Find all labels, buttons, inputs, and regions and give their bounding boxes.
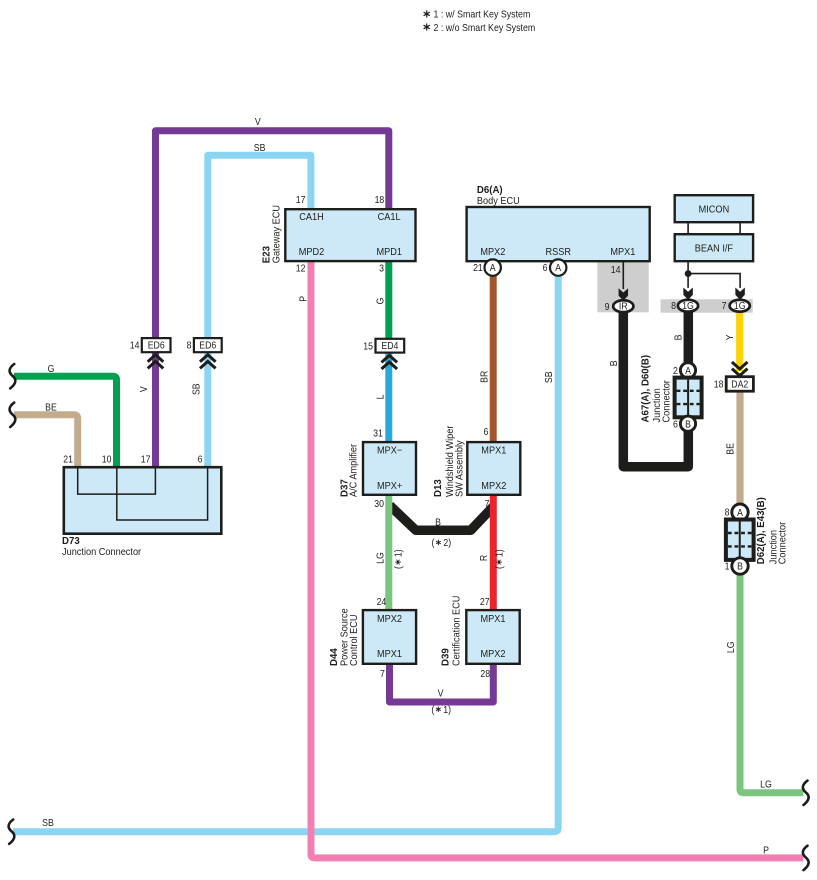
svg-text:24: 24: [377, 596, 387, 608]
svg-text:MPX1: MPX1: [481, 445, 506, 457]
svg-text:V: V: [137, 386, 149, 393]
connector 15 ED4 (G/L wire): [363, 339, 404, 369]
wire B (D37 MPX+ to D13 MPX2 bridge): [390, 506, 494, 531]
svg-text:B: B: [607, 360, 619, 366]
wire LG (D37 MPX+ down to D44 MPX2): [385, 495, 392, 610]
legend note *2: [424, 22, 536, 34]
gray shade behind 1G ovals: [661, 299, 753, 312]
svg-text:2: 2: [673, 364, 678, 376]
wire V (D44 MPX1 to D39 MPX2 bottom loop): [390, 664, 494, 702]
svg-text:MPX2: MPX2: [377, 613, 402, 625]
svg-text:MICON: MICON: [699, 204, 730, 216]
svg-text:A: A: [555, 262, 562, 274]
ECU D44 Power Source Control ECU: [363, 610, 416, 664]
svg-text:8: 8: [725, 506, 730, 518]
wire P (E23 MPD2 down, across bottom to right edge): [311, 261, 803, 858]
svg-text:7: 7: [380, 668, 385, 680]
break symbol SB (bottom left): [9, 820, 15, 844]
wire V (D73 pin17 up through ED6, over top, down to E23 CA1L): [156, 131, 389, 468]
svg-text:1: 1: [725, 560, 730, 572]
svg-text:A67(A), D60(B): A67(A), D60(B): [640, 355, 651, 423]
connector ring A (A67): [680, 363, 695, 378]
connector ring A (D62): [732, 504, 748, 520]
wire G (E23 MPD1 down to ED4): [385, 261, 392, 338]
wire B (IR oval down, right, up to A67 connector B): [623, 306, 688, 467]
svg-text:6: 6: [673, 418, 678, 430]
svg-text:B: B: [435, 516, 441, 528]
break symbol BE (left): [10, 403, 16, 427]
wire BE (DA2 down to D62 connector A): [736, 391, 743, 512]
svg-text:MPX1: MPX1: [610, 246, 635, 258]
svg-text:MPX+: MPX+: [377, 480, 402, 492]
svg-text:ED6: ED6: [148, 339, 165, 351]
svg-text:3: 3: [379, 262, 384, 274]
connector 14 ED6 (V wire): [130, 338, 171, 368]
label (*1) (LG wire): [392, 549, 404, 569]
svg-text:MPX2: MPX2: [480, 246, 505, 258]
svg-text:28: 28: [480, 668, 490, 680]
svg-text:G: G: [374, 298, 386, 305]
svg-text:31: 31: [373, 427, 383, 439]
connector 18 DA2 (Y/BE wire): [714, 377, 754, 392]
ECU D6(A) Body ECU: [467, 207, 650, 261]
block BEAN I/F: [675, 234, 753, 261]
svg-text:Gateway ECU: Gateway ECU: [271, 205, 283, 263]
svg-text:B: B: [737, 560, 743, 572]
svg-text:D13: D13: [433, 479, 444, 497]
svg-text:V: V: [255, 115, 262, 127]
wire B (1G pin8 down to A67 connector A): [684, 306, 694, 371]
svg-text:BE: BE: [45, 401, 57, 413]
label (*1) (bottom loop): [431, 703, 451, 715]
arrow into IR: [619, 288, 629, 300]
svg-text:7: 7: [485, 497, 490, 509]
svg-text:6: 6: [543, 262, 548, 274]
legend note *1: [424, 9, 531, 21]
connector ring A (Body ECU RSSR): [550, 259, 566, 275]
arrow into 1G pin7: [735, 288, 745, 300]
wire BR (Body ECU MPX2 down to D13 MPX1): [490, 268, 497, 443]
wire SB (Body ECU RSSR down, across bottom to left edge): [13, 268, 558, 832]
svg-text:21: 21: [473, 262, 483, 274]
svg-text:2 : w/o Smart Key System: 2 : w/o Smart Key System: [434, 22, 536, 34]
svg-text:6: 6: [483, 426, 488, 438]
svg-text:P: P: [297, 296, 309, 302]
svg-text:MPD1: MPD1: [376, 246, 402, 258]
svg-text:7: 7: [722, 300, 727, 312]
wire L (ED4 down to D37 MPX-): [385, 353, 392, 443]
svg-text:SW Assembly: SW Assembly: [454, 440, 466, 497]
ECU E23 Gateway ECU: [285, 209, 415, 261]
svg-text:LG: LG: [374, 552, 386, 564]
svg-text:R: R: [478, 555, 490, 562]
svg-text:MPX2: MPX2: [481, 480, 506, 492]
svg-text:6: 6: [198, 453, 203, 465]
break symbol LG (right): [803, 781, 809, 805]
svg-text:RSSR: RSSR: [545, 246, 571, 258]
connector 8 ED6 (SB wire): [187, 338, 222, 368]
svg-text:IR: IR: [619, 300, 628, 312]
svg-text:SB: SB: [190, 383, 202, 395]
junction connector D62(A),E43(B) grid: [726, 520, 754, 560]
wire BE (left edge to D73 pin21): [14, 415, 78, 468]
connector oval 1G (pin8): [678, 300, 698, 312]
connector ring B (D62): [732, 558, 748, 574]
svg-text:14: 14: [611, 263, 621, 275]
svg-text:SB: SB: [42, 817, 54, 829]
wire G (left edge to D73 pin10): [14, 376, 117, 467]
svg-text:ED6: ED6: [199, 339, 216, 351]
wire (BEAN I/F branch to 1G pins): [688, 261, 740, 288]
svg-text:Certification ECU: Certification ECU: [451, 596, 463, 666]
svg-text:D39: D39: [440, 648, 451, 666]
svg-text:A: A: [490, 262, 497, 274]
svg-text:L: L: [374, 395, 386, 400]
connector oval IR: [613, 300, 633, 312]
arrow into 1G pin8: [683, 288, 693, 300]
wire SB (D73 pin6 up through ED6, over top, down to E23 CA1H): [208, 155, 311, 467]
ECU D39 Certification ECU: [466, 610, 519, 664]
svg-text:8: 8: [187, 339, 192, 351]
svg-text:A: A: [737, 506, 744, 518]
svg-text:MPX−: MPX−: [377, 445, 402, 457]
svg-text:27: 27: [480, 596, 490, 608]
wire (MICON to BEAN I/F links): [687, 222, 689, 234]
break symbol G (left): [10, 364, 16, 388]
svg-text:BR: BR: [478, 371, 490, 383]
svg-text:MPX1: MPX1: [377, 648, 402, 660]
svg-text:V: V: [438, 687, 445, 699]
label (*2) (bridge): [432, 537, 452, 549]
svg-text:1G: 1G: [734, 300, 746, 312]
svg-text:18: 18: [375, 194, 385, 206]
svg-text:12: 12: [296, 262, 306, 274]
svg-text:MPX1: MPX1: [480, 613, 505, 625]
svg-text:B: B: [685, 418, 691, 430]
break symbol P (bottom right): [803, 846, 809, 870]
arrow double chevron into DA2: [732, 362, 748, 376]
wire (MPX1 pin line to IR): [622, 261, 624, 289]
svg-text:B: B: [672, 335, 684, 341]
junction connector D73: [64, 467, 222, 534]
svg-text:BEAN I/F: BEAN I/F: [695, 243, 733, 255]
svg-text:MPD2: MPD2: [299, 246, 325, 258]
svg-text:Control ECU: Control ECU: [349, 614, 361, 666]
svg-text:8: 8: [671, 300, 676, 312]
svg-text:D62(A), E43(B): D62(A), E43(B): [756, 497, 767, 564]
svg-text:15: 15: [363, 340, 373, 352]
svg-text:SB: SB: [543, 371, 555, 383]
block MICON: [675, 195, 753, 222]
wire LG (D62 connector B down, right to edge): [740, 566, 803, 793]
junction dot: [685, 270, 692, 277]
svg-text:LG: LG: [724, 641, 736, 653]
wire Y (1G pin7 down to DA2): [736, 306, 743, 372]
svg-text:P: P: [763, 844, 769, 856]
svg-text:A/C Amplifier: A/C Amplifier: [348, 443, 360, 497]
label (*1) (R wire): [493, 549, 505, 569]
connector oval 1G (pin7): [730, 300, 750, 312]
gray shade behind IR: [597, 261, 648, 312]
ECU D13 Windshield Wiper SW Assembly: [467, 442, 520, 495]
svg-text:DA2: DA2: [731, 378, 748, 390]
connector ring B (A67): [680, 416, 695, 431]
svg-text:Connector: Connector: [777, 521, 789, 564]
svg-text:BE: BE: [724, 443, 736, 455]
svg-text:30: 30: [374, 497, 384, 509]
svg-text:17: 17: [141, 453, 151, 465]
svg-text:9: 9: [605, 300, 610, 312]
ECU D37 A/C Amplifier: [363, 442, 416, 495]
svg-text:21: 21: [63, 453, 73, 465]
svg-text:ED4: ED4: [381, 340, 398, 352]
svg-text:A: A: [685, 364, 692, 376]
svg-text:Junction Connector: Junction Connector: [62, 546, 142, 558]
svg-text:LG: LG: [760, 778, 772, 790]
svg-text:10: 10: [102, 453, 112, 465]
svg-text:17: 17: [296, 194, 306, 206]
svg-text:1 : w/ Smart Key System: 1 : w/ Smart Key System: [434, 9, 531, 21]
wire R (D13 MPX2 down to D39 MPX1): [490, 495, 497, 610]
svg-text:Connector: Connector: [661, 379, 673, 422]
svg-text:G: G: [48, 362, 55, 374]
svg-text:CA1L: CA1L: [378, 212, 401, 224]
svg-text:Body ECU: Body ECU: [477, 195, 520, 207]
svg-text:MPX2: MPX2: [480, 648, 505, 660]
svg-text:Y: Y: [723, 334, 735, 341]
connector ring A (Body ECU MPX2): [485, 259, 501, 275]
svg-text:SB: SB: [254, 141, 266, 153]
svg-text:1G: 1G: [682, 300, 694, 312]
svg-text:14: 14: [130, 339, 140, 351]
svg-text:CA1H: CA1H: [299, 212, 324, 224]
svg-text:18: 18: [714, 378, 724, 390]
junction connector A67(A),D60(B) grid: [675, 378, 702, 418]
